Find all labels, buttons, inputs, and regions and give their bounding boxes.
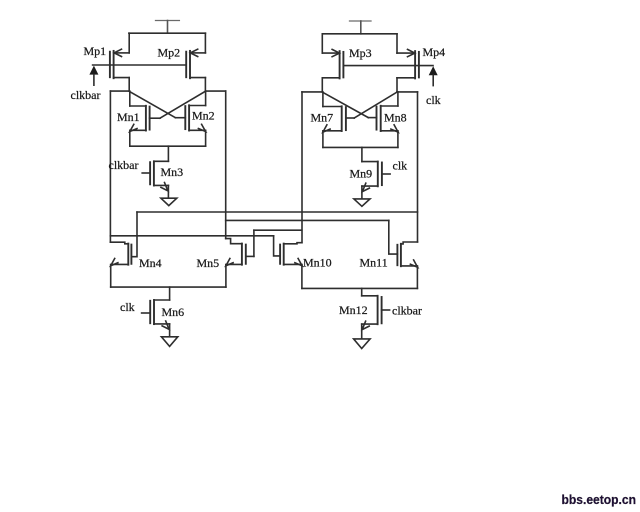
ground below Mn6 bbox=[161, 337, 177, 347]
svg-text:clkbar: clkbar bbox=[71, 88, 101, 102]
svg-text:clkbar: clkbar bbox=[392, 304, 422, 318]
ground below Mn9 bbox=[354, 199, 370, 206]
svg-text:bbs.eetop.cn: bbs.eetop.cn bbox=[562, 492, 637, 507]
wire cross-couple diagonal to Mn7 gate bbox=[354, 92, 397, 118]
clk input arrow bbox=[429, 66, 438, 85]
wire clk gate line right bbox=[343, 65, 433, 67]
svg-text:clk: clk bbox=[393, 159, 408, 173]
wire VDD rail left bbox=[129, 32, 206, 34]
svg-text:Mp2: Mp2 bbox=[158, 46, 181, 60]
wire Mn11 gate riser bbox=[389, 220, 398, 254]
transistor Mn3 bbox=[142, 161, 168, 198]
wire Mn7 Mn8 common source rail bbox=[323, 146, 398, 148]
transistor Mp3 bbox=[322, 34, 343, 92]
svg-text:clkbar: clkbar bbox=[109, 158, 139, 172]
svg-text:clk: clk bbox=[426, 93, 441, 107]
wire VDD rail right bbox=[322, 33, 397, 35]
node S-bar vertical (left output wire) bbox=[109, 91, 111, 242]
wire box top-right segment (right half) bbox=[397, 91, 418, 93]
svg-text:Mn4: Mn4 bbox=[139, 256, 162, 270]
node R-bar vertical (right output wire) bbox=[417, 92, 419, 242]
power VDD left bbox=[156, 20, 180, 22]
wire stem to Mn12 bbox=[361, 288, 363, 295]
transistor Mn11 bbox=[397, 242, 417, 288]
wire Mn1 Mn2 common source rail bbox=[130, 145, 206, 147]
transistor Mn1 bbox=[130, 91, 160, 146]
svg-text:Mn6: Mn6 bbox=[162, 305, 185, 319]
wire VDD stem right bbox=[360, 21, 362, 34]
wire line4 (Sbar to Mn10 gate) bbox=[110, 235, 273, 237]
transistor Mp4 bbox=[397, 34, 419, 92]
transistor Mn10 bbox=[280, 243, 302, 289]
transistor Mp1 bbox=[110, 33, 129, 91]
svg-text:Mn8: Mn8 bbox=[384, 111, 407, 125]
transistor Mp2 bbox=[186, 33, 205, 91]
clkbar input arrow bbox=[89, 66, 98, 86]
wire bottom rail right bbox=[302, 287, 418, 289]
transistor Mn2 bbox=[175, 91, 205, 146]
wire cross-couple diagonal to Mn2 gate bbox=[129, 91, 175, 117]
transistor Mn12 bbox=[362, 296, 390, 339]
wire line2 (S to Mn11 gate) bbox=[226, 219, 389, 221]
svg-text:Mn3: Mn3 bbox=[161, 165, 184, 179]
wire bottom rail left bbox=[111, 286, 226, 288]
svg-text:Mn11: Mn11 bbox=[360, 256, 388, 270]
wire clkbar gate line left bbox=[93, 64, 187, 66]
wire VDD stem left bbox=[167, 21, 169, 34]
wire Mn10 gate riser bbox=[274, 236, 281, 256]
svg-text:Mn5: Mn5 bbox=[197, 256, 220, 270]
wire cross-couple diagonal to Mn8 gate bbox=[323, 92, 369, 117]
transistor Mn4 bbox=[110, 242, 131, 287]
wire stem to Mn6 bbox=[169, 287, 171, 300]
node S vertical (left half right wire) bbox=[225, 91, 227, 239]
wire line1 (Rbar to Mn4 gate) bbox=[137, 211, 418, 213]
wire box top-right segment (left half) bbox=[205, 90, 225, 92]
svg-text:Mn10: Mn10 bbox=[303, 256, 332, 270]
wire box top-left segment bbox=[110, 90, 129, 92]
transistor Mn9 bbox=[362, 162, 390, 199]
wire tail stem to Mn3 bbox=[167, 146, 169, 161]
power VDD right bbox=[350, 20, 372, 22]
wire box top-left segment (right half) bbox=[302, 91, 322, 93]
svg-text:Mp3: Mp3 bbox=[349, 46, 372, 60]
transistor Mn8 bbox=[368, 92, 398, 147]
wire tail stem to Mn9 bbox=[361, 147, 363, 161]
svg-text:Mn2: Mn2 bbox=[192, 109, 215, 123]
svg-text:Mp1: Mp1 bbox=[84, 44, 107, 58]
svg-text:clk: clk bbox=[120, 300, 135, 314]
transistor Mn5 bbox=[226, 239, 254, 288]
wire Mn5 gate riser bbox=[253, 230, 255, 256]
transistor Mn7 bbox=[323, 92, 354, 147]
wire cross-couple diagonal to Mn1 gate bbox=[160, 91, 205, 118]
ground below Mn12 bbox=[354, 339, 371, 349]
node R vertical (right half left wire) bbox=[301, 92, 303, 243]
ground below Mn3 bbox=[161, 198, 177, 205]
svg-text:Mn9: Mn9 bbox=[350, 167, 373, 181]
svg-text:Mn12: Mn12 bbox=[339, 303, 368, 317]
wire Mn4 gate riser bbox=[131, 212, 137, 257]
svg-text:Mn7: Mn7 bbox=[311, 111, 334, 125]
svg-text:Mn1: Mn1 bbox=[117, 110, 140, 124]
svg-text:Mp4: Mp4 bbox=[423, 45, 446, 59]
wire line3 (R to Mn5 gate) bbox=[254, 229, 302, 231]
transistor Mn6 bbox=[142, 300, 170, 337]
